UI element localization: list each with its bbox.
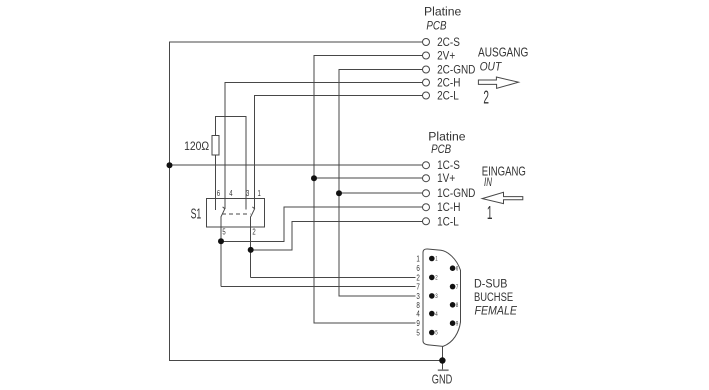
svg-text:3: 3 <box>435 293 437 300</box>
svg-text:1: 1 <box>416 254 419 264</box>
D-SUB pin 7 <box>450 284 456 290</box>
wire 2C-L to switch pin 1 <box>255 96 423 209</box>
svg-text:1V+: 1V+ <box>437 172 455 185</box>
terminal 1C-L <box>423 218 430 225</box>
svg-text:PCB: PCB <box>431 143 451 156</box>
svg-text:AUSGANG: AUSGANG <box>478 46 528 59</box>
svg-text:IN: IN <box>484 177 492 190</box>
wire CAN-L net: switch pin 2 down to D-SUB pin 2 <box>250 217 252 278</box>
switch S1 pole A lever (pin 5 to pin 4) <box>221 207 225 217</box>
node shield junction at 1C-S <box>167 162 173 168</box>
wire CAN-H branch to 1C-H <box>221 207 423 241</box>
terminal 1C-S <box>423 162 430 169</box>
svg-text:1C-L: 1C-L <box>437 216 459 229</box>
node C-GND junction at 1C-GND <box>336 190 342 196</box>
switch S1 pole B lever (pin 2 to pin 1) <box>251 207 255 217</box>
svg-text:6: 6 <box>456 266 458 273</box>
svg-text:Platine: Platine <box>428 130 465 144</box>
svg-text:5: 5 <box>222 226 225 236</box>
svg-text:BUCHSE: BUCHSE <box>474 291 513 304</box>
svg-text:2: 2 <box>435 275 437 282</box>
wire resistor bottom to switch pin 6 <box>215 155 217 210</box>
svg-text:2C-H: 2C-H <box>437 77 460 90</box>
wire shield bus (2C-S / 1C-S / GND) <box>170 42 443 361</box>
svg-text:OUT: OUT <box>480 61 503 74</box>
svg-text:3: 3 <box>246 188 249 198</box>
svg-text:1C-H: 1C-H <box>437 201 460 214</box>
wire V+ bus vertical <box>314 56 423 324</box>
svg-text:2: 2 <box>252 226 255 236</box>
svg-text:2C-L: 2C-L <box>437 90 459 103</box>
terminal 2C-S <box>423 39 430 46</box>
svg-text:6: 6 <box>217 188 220 198</box>
D-SUB pin 8 <box>450 302 456 308</box>
svg-text:5: 5 <box>435 330 437 337</box>
svg-text:2C-S: 2C-S <box>437 36 460 49</box>
svg-text:FEMALE: FEMALE <box>475 305 518 318</box>
D-SUB pin 4 <box>429 311 435 317</box>
wire CAN-L branch to 1C-L <box>251 221 423 250</box>
wire 1V+ branch <box>314 177 423 179</box>
svg-text:9: 9 <box>456 321 458 328</box>
wire D-SUB shell to ground <box>441 347 443 370</box>
ground symbol bar <box>438 369 449 371</box>
svg-text:Platine: Platine <box>424 5 461 19</box>
switch S1 gang dashed link <box>222 213 251 215</box>
terminal 2C-H <box>423 79 430 86</box>
D-SUB pin 3 <box>429 293 435 299</box>
svg-text:1C-S: 1C-S <box>437 159 460 172</box>
svg-text:D-SUB: D-SUB <box>474 278 508 291</box>
resistor R 120 ohm <box>212 135 219 155</box>
wire 1C-GND branch <box>339 192 423 194</box>
terminal 1C-GND <box>423 190 430 197</box>
svg-text:1: 1 <box>258 188 261 198</box>
D-SUB pin 2 <box>429 275 435 281</box>
svg-text:PCB: PCB <box>426 19 446 32</box>
connector J1 D-SUB shell <box>423 249 461 346</box>
svg-text:4: 4 <box>229 188 232 198</box>
wire CAN-H to D-SUB pin 7 row <box>221 286 416 288</box>
D-SUB pin 5 <box>429 330 435 336</box>
terminal 2C-L <box>423 92 430 99</box>
svg-text:GND: GND <box>432 373 453 387</box>
D-SUB pin 1 <box>429 256 435 262</box>
arrow in (left) <box>482 192 523 203</box>
terminal 1V+ <box>423 175 430 182</box>
svg-text:8: 8 <box>456 302 458 309</box>
svg-text:1C-GND: 1C-GND <box>437 187 475 200</box>
D-SUB pin 6 <box>450 265 456 271</box>
node CAN-L junction <box>248 247 254 253</box>
node CAN-H junction <box>218 238 224 244</box>
svg-text:2V+: 2V+ <box>437 50 455 63</box>
wire C-GND bus vertical <box>339 70 423 296</box>
node V+ junction at 1V+ <box>311 175 317 181</box>
svg-text:1: 1 <box>435 256 437 263</box>
terminal 2V+ <box>423 52 430 59</box>
svg-text:4: 4 <box>435 311 437 318</box>
D-SUB pin 9 <box>450 320 456 326</box>
terminal 1C-H <box>423 204 430 211</box>
svg-text:7: 7 <box>456 284 458 291</box>
svg-text:120Ω: 120Ω <box>184 140 209 153</box>
svg-text:2C-GND: 2C-GND <box>437 64 475 77</box>
svg-text:1: 1 <box>487 204 493 224</box>
wire CAN-H net: switch pin 5 down to D-SUB pin 7 <box>220 217 222 287</box>
node ground junction <box>439 357 445 363</box>
wire 2C-H to switch pin 4 <box>225 83 423 209</box>
terminal 2C-GND <box>423 66 430 73</box>
svg-text:S1: S1 <box>191 205 202 222</box>
wire CAN-L to D-SUB pin 2 row <box>251 276 416 278</box>
wire resistor top to switch pin 3 <box>216 116 246 209</box>
svg-text:2: 2 <box>483 89 489 109</box>
svg-text:5: 5 <box>416 328 419 338</box>
wire 1C-S branch <box>170 164 423 166</box>
arrow out (right) <box>478 77 518 88</box>
switch S1 body <box>207 199 265 227</box>
